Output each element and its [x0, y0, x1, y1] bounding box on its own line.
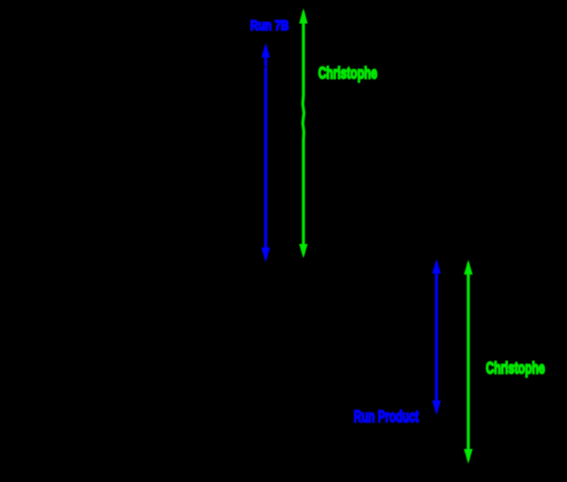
svg-text:Christophe: Christophe — [318, 63, 377, 82]
arrow blue left (double-headed vertical) — [261, 43, 270, 262]
svg-text:Run Product: Run Product — [354, 407, 419, 426]
svg-text:Christophe: Christophe — [486, 358, 545, 377]
svg-text:Run 7B: Run 7B — [250, 18, 289, 33]
arrow blue right (double-headed vertical) — [432, 259, 441, 415]
arrow green right (double-headed vertical) — [464, 260, 473, 464]
shaft notch on blue left arrow — [264, 66, 266, 68]
arrow green left (double-headed vertical) — [299, 8, 308, 258]
